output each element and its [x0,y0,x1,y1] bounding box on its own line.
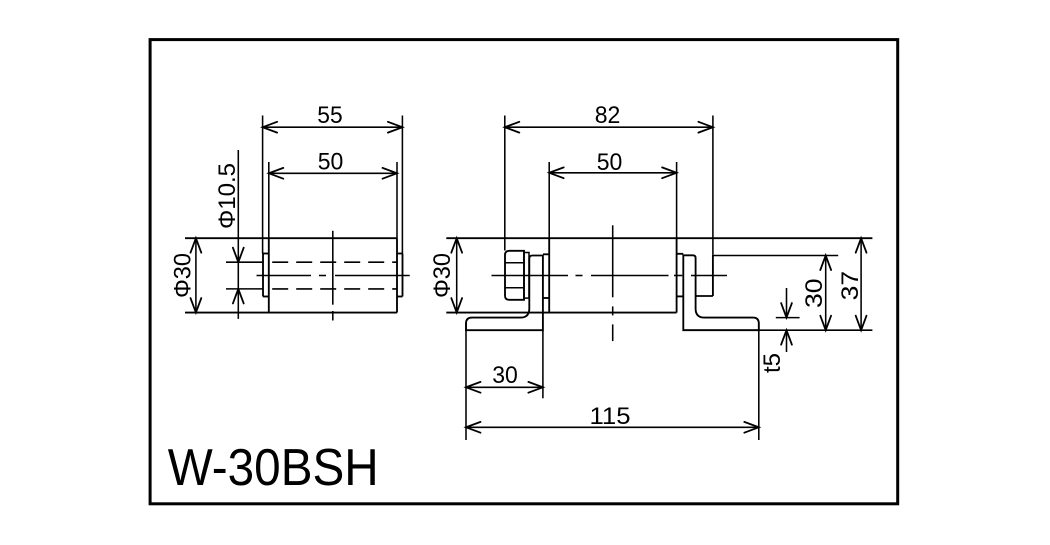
svg-text:30: 30 [801,278,828,308]
svg-text:W-30BSH: W-30BSH [168,439,379,497]
svg-text:50: 50 [597,149,623,176]
svg-text:82: 82 [595,102,621,129]
svg-text:Φ30: Φ30 [429,253,456,298]
svg-text:55: 55 [317,102,342,129]
svg-text:t5: t5 [759,353,786,373]
svg-text:30: 30 [492,362,518,389]
svg-text:50: 50 [318,149,344,176]
svg-text:115: 115 [590,403,631,430]
svg-text:Φ10.5: Φ10.5 [214,163,241,229]
svg-text:Φ30: Φ30 [170,253,197,298]
svg-text:37: 37 [837,271,864,301]
